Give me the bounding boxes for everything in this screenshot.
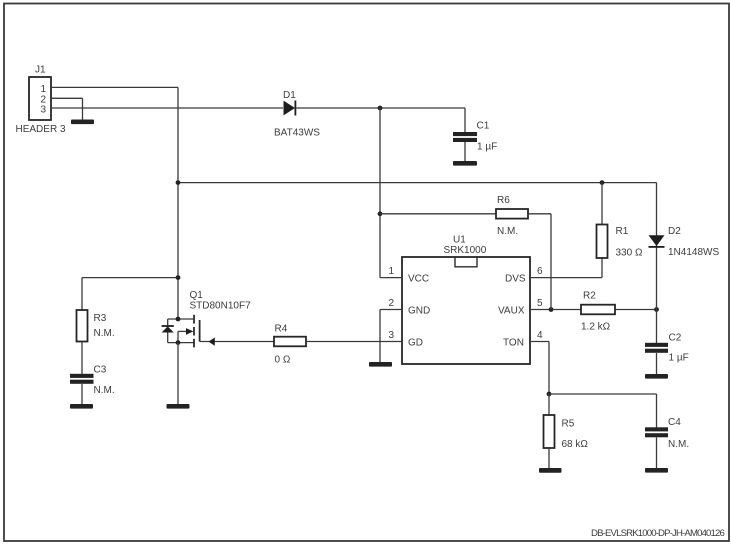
svg-text:BAT43WS: BAT43WS xyxy=(274,128,320,139)
svg-text:1 µF: 1 µF xyxy=(669,353,689,364)
svg-text:TON: TON xyxy=(503,338,524,349)
pin 2 xyxy=(380,298,402,362)
svg-text:0 Ω: 0 Ω xyxy=(275,355,291,366)
svg-text:330 Ω: 330 Ω xyxy=(616,248,643,259)
node rail-R1 junction xyxy=(600,180,605,185)
top horizontal drain bar xyxy=(168,318,194,320)
ground C4 xyxy=(645,468,668,473)
svg-text:Q1: Q1 xyxy=(190,290,204,301)
svg-text:R5: R5 xyxy=(562,419,575,430)
diode D2 xyxy=(649,183,720,343)
channel segments xyxy=(193,315,195,324)
wire J1 pin2 horizontal xyxy=(51,97,83,99)
svg-text:R3: R3 xyxy=(94,313,107,324)
svg-text:3: 3 xyxy=(389,330,395,341)
svg-text:R4: R4 xyxy=(275,324,288,335)
ground R5 xyxy=(539,468,562,473)
svg-text:R1: R1 xyxy=(616,226,629,237)
ground Q1 xyxy=(167,404,190,409)
bulk arrow xyxy=(177,331,179,342)
pin 6 xyxy=(530,258,602,278)
resistor R6 branch xyxy=(378,195,551,310)
node source-diode junction xyxy=(176,340,181,345)
capacitor C4 xyxy=(645,417,689,468)
resistor R1 xyxy=(597,183,643,259)
svg-text:VAUX: VAUX xyxy=(498,306,525,317)
resistor R5 xyxy=(544,394,589,468)
capacitor C2 xyxy=(645,333,689,376)
wire left branch to R3 xyxy=(82,277,178,279)
ground J1 pin2 xyxy=(71,120,94,125)
svg-text:1N4148WS: 1N4148WS xyxy=(668,247,719,258)
wire D1 cathode to node xyxy=(296,107,466,109)
svg-text:DB-EVLSRK1000-DP-JH-AM040126: DB-EVLSRK1000-DP-JH-AM040126 xyxy=(591,528,724,539)
gate plate xyxy=(199,320,201,342)
wire Q1 source to ground xyxy=(177,343,179,404)
capacitor C3 xyxy=(70,365,115,405)
transistor Q1 MOSFET xyxy=(162,290,251,347)
svg-text:HEADER 3: HEADER 3 xyxy=(16,124,66,135)
node VIN junction xyxy=(378,106,383,111)
svg-text:DVS: DVS xyxy=(505,274,526,285)
resistor R4 xyxy=(274,324,306,366)
svg-text:R6: R6 xyxy=(497,195,510,206)
svg-text:J1: J1 xyxy=(35,65,46,76)
connector J1 xyxy=(16,65,66,136)
svg-text:SRK1000: SRK1000 xyxy=(444,245,487,256)
svg-text:C3: C3 xyxy=(94,365,107,376)
svg-text:2: 2 xyxy=(389,298,395,309)
capacitor C1 xyxy=(453,108,497,161)
ground C1 xyxy=(453,161,477,166)
svg-text:1 µF: 1 µF xyxy=(477,142,497,153)
pin 4 / TON net xyxy=(530,330,657,428)
svg-text:N.M.: N.M. xyxy=(94,328,115,339)
svg-text:68 kΩ: 68 kΩ xyxy=(562,439,589,450)
resistor R2 xyxy=(581,291,615,333)
svg-text:1: 1 xyxy=(389,266,395,277)
wire J1 pin2 down to ground xyxy=(82,98,84,120)
wire J1 pin1 vertical to Q1 drain xyxy=(177,87,179,319)
bottom horizontal source bar xyxy=(168,342,194,344)
op-amp U1 SRK1000 body xyxy=(402,235,530,365)
svg-text:N.M.: N.M. xyxy=(497,226,518,237)
svg-text:R2: R2 xyxy=(583,291,596,302)
body diode branch xyxy=(167,319,169,326)
svg-text:3: 3 xyxy=(41,104,47,115)
ground U1 GND xyxy=(369,362,392,367)
wire R3 top xyxy=(81,278,83,310)
svg-text:D1: D1 xyxy=(283,90,296,101)
wire top rail xyxy=(178,182,657,184)
svg-text:N.M.: N.M. xyxy=(94,385,115,396)
resistor R3 xyxy=(77,310,115,342)
ground C2 xyxy=(645,374,668,379)
svg-text:5: 5 xyxy=(537,298,543,309)
pin 1 xyxy=(380,266,402,278)
wire gate to R4 with arrow xyxy=(200,338,274,346)
svg-text:C2: C2 xyxy=(669,333,682,344)
svg-text:4: 4 xyxy=(537,330,543,341)
svg-text:GND: GND xyxy=(408,306,430,317)
wire R3 to C3 xyxy=(81,342,83,375)
svg-text:D2: D2 xyxy=(668,226,681,237)
wire VCC vertical from D1 node xyxy=(379,108,381,278)
diode D1 xyxy=(274,90,320,139)
svg-text:STD80N10F7: STD80N10F7 xyxy=(190,301,252,312)
svg-text:1.2 kΩ: 1.2 kΩ xyxy=(581,322,611,333)
svg-text:GD: GD xyxy=(408,338,423,349)
svg-text:C4: C4 xyxy=(668,417,681,428)
wire R4 to GD pin3 xyxy=(306,341,402,343)
node drain junction xyxy=(176,275,181,280)
svg-text:6: 6 xyxy=(537,266,543,277)
svg-text:U1: U1 xyxy=(453,235,466,246)
svg-text:C1: C1 xyxy=(477,121,490,132)
wire J1 pin1 horizontal xyxy=(51,86,178,88)
svg-text:N.M.: N.M. xyxy=(668,439,689,450)
ground C3 xyxy=(70,404,93,409)
wire J1 pin3 to D1 anode xyxy=(51,107,283,109)
svg-text:VCC: VCC xyxy=(408,274,429,285)
svg-text:1: 1 xyxy=(41,84,47,95)
node drain-diode junction xyxy=(176,317,181,322)
node rail-left junction xyxy=(176,180,181,185)
pin 5 / VAUX net xyxy=(530,298,659,312)
